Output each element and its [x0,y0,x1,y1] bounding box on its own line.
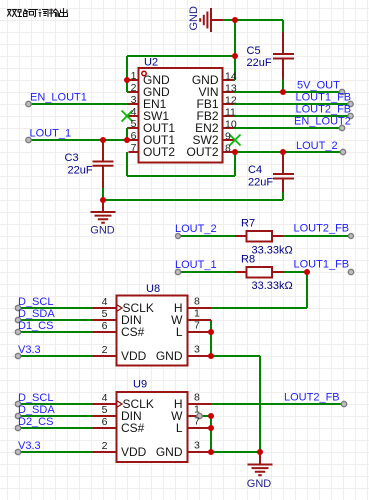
svg-text:22uF: 22uF [247,57,272,69]
svg-text:4: 4 [102,392,108,404]
svg-text:6: 6 [102,320,108,332]
svg-text:V3.3: V3.3 [18,344,41,356]
svg-text:EN_LOUT1: EN_LOUT1 [30,92,87,104]
svg-text:8: 8 [225,143,231,155]
svg-text:VDD: VDD [121,349,147,363]
svg-text:3: 3 [194,440,200,452]
svg-text:LOUT_1: LOUT_1 [30,128,72,140]
svg-text:2: 2 [131,82,137,94]
svg-text:1: 1 [131,70,137,82]
svg-text:LOUT2_FB: LOUT2_FB [284,392,340,404]
svg-text:LOUT_2: LOUT_2 [296,140,338,152]
svg-text:6: 6 [102,416,108,428]
svg-text:C4: C4 [248,164,262,176]
svg-text:7: 7 [194,416,200,428]
svg-text:LOUT1_FB: LOUT1_FB [296,92,352,104]
svg-text:D_SDA: D_SDA [18,308,55,320]
svg-text:5: 5 [131,118,137,130]
svg-text:14: 14 [225,71,237,83]
svg-text:OUT2: OUT2 [143,145,175,159]
svg-text:V3.3: V3.3 [18,440,41,452]
svg-text:VDD: VDD [121,445,147,459]
svg-text:10: 10 [225,119,237,131]
svg-text:D_SCL: D_SCL [18,296,53,308]
svg-text:5: 5 [102,308,108,320]
svg-text:U8: U8 [146,283,160,295]
svg-text:33.33kΩ: 33.33kΩ [252,245,293,257]
svg-text:L: L [176,325,183,339]
svg-text:3: 3 [131,94,137,106]
svg-text:8: 8 [194,296,200,308]
svg-text:D_SCL: D_SCL [18,392,53,404]
svg-text:CS#: CS# [121,421,145,435]
svg-text:LOUT2_FB: LOUT2_FB [296,104,352,116]
svg-text:4: 4 [102,296,108,308]
svg-text:C5: C5 [247,45,261,57]
svg-text:8: 8 [194,392,200,404]
svg-text:GND: GND [90,225,115,237]
svg-text:L: L [176,421,183,435]
svg-text:4: 4 [131,106,137,118]
svg-text:13: 13 [225,83,237,95]
svg-text:3: 3 [194,344,200,356]
svg-text:U2: U2 [144,57,158,69]
svg-text:11: 11 [225,107,236,119]
svg-text:LOUT_2: LOUT_2 [175,223,217,235]
svg-text:2: 2 [102,344,108,356]
svg-text:R7: R7 [241,218,255,230]
svg-text:GND: GND [247,478,272,490]
svg-text:22uF: 22uF [248,177,273,189]
svg-text:GND: GND [156,445,183,459]
svg-text:LOUT2_FB: LOUT2_FB [294,223,350,235]
svg-text:LOUT_1: LOUT_1 [175,259,217,271]
svg-text:CS#: CS# [121,325,145,339]
svg-text:5V_OUT: 5V_OUT [297,80,340,92]
svg-text:D_SDA: D_SDA [18,404,55,416]
svg-text:1: 1 [194,308,200,320]
svg-text:6: 6 [131,130,137,142]
svg-text:R8: R8 [241,254,255,266]
svg-text:U9: U9 [133,379,147,391]
svg-text:2: 2 [102,440,108,452]
svg-text:9: 9 [225,131,231,143]
svg-text:EN_LOUT2: EN_LOUT2 [294,116,351,128]
svg-text:12: 12 [225,95,237,107]
svg-text:33.33kΩ: 33.33kΩ [252,280,293,292]
svg-text:D2_CS: D2_CS [18,416,53,428]
svg-text:5: 5 [102,404,108,416]
svg-text:D1_CS: D1_CS [18,320,53,332]
svg-text:LOUT1_FB: LOUT1_FB [294,259,350,271]
svg-text:GND: GND [156,349,183,363]
svg-text:OUT2: OUT2 [186,145,218,159]
svg-text:C3: C3 [65,152,79,164]
svg-text:7: 7 [194,320,200,332]
svg-text:7: 7 [131,142,137,154]
svg-text:1: 1 [194,404,200,416]
svg-text:22uF: 22uF [68,165,93,177]
svg-text:GND: GND [188,6,200,31]
